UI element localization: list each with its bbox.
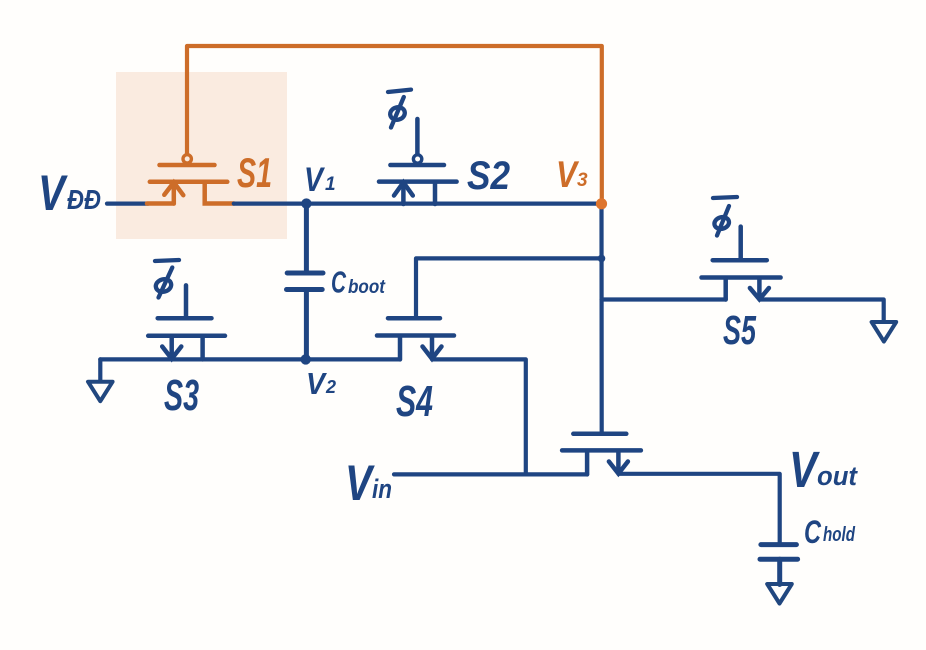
label V3 [556,154,588,195]
wire S4 drain down to Vin line [432,359,526,474]
svg-text:C: C [331,265,346,300]
wire S2 to V3 [403,202,601,206]
wire V1 row: S1 to S2 [234,202,404,206]
wire S5 drain to ground [759,300,883,322]
svg-text:S2: S2 [467,154,510,198]
node junction to S4 gate [598,255,606,263]
wire V3 down to main switch gate [599,204,603,433]
label phi-bar of S3 [154,260,179,298]
label Vout [789,441,858,498]
label V1 [304,161,336,199]
svg-text:S3: S3 [164,371,199,420]
label V2 [306,366,336,401]
svg-text:S4: S4 [396,377,433,426]
transistor S5 [702,227,781,300]
label VDD [38,165,101,221]
wire V2 row: ground to S4 [100,357,400,361]
svg-text:S5: S5 [723,307,757,353]
label phi-bar of S5 [713,197,737,236]
svg-text:V: V [306,366,327,401]
transistor S3 [148,285,225,359]
ground at S5 [872,322,897,342]
svg-text:S1: S1 [237,149,272,196]
svg-text:out: out [817,461,858,491]
transistor S4 [377,318,454,359]
svg-text:1: 1 [325,174,336,195]
svg-text:C: C [804,514,822,550]
label Vin [345,455,392,511]
label Cboot [331,265,386,300]
wire S4 gate branch [416,258,602,318]
transistor S2 [379,119,457,204]
svg-text:in: in [372,474,392,504]
capacitor Cboot [287,208,324,359]
svg-text:hold: hold [823,524,856,546]
svg-text:ĐĐ: ĐĐ [67,184,101,215]
ground at S3 [98,359,102,381]
wire orange gate loop from S1 gate to V3 [187,46,602,199]
wire S5 source to V3 rail [602,297,726,301]
transistor M main switch [562,434,641,475]
svg-text:V: V [38,165,68,221]
node V2 [301,354,311,364]
wire VDD to S1 [107,202,148,206]
svg-text:2: 2 [325,377,336,397]
svg-text:boot: boot [348,277,386,298]
node V1 [301,198,311,208]
svg-text:V: V [789,441,820,498]
svg-text:3: 3 [577,170,588,191]
svg-text:V: V [304,161,326,199]
wire Vin [394,472,587,476]
capacitor Chold [760,545,798,585]
transistor S1 [147,155,234,204]
svg-text:V: V [345,455,375,511]
ground at Chold [767,584,792,604]
label Chold [804,514,856,550]
node V3 [596,198,607,209]
highlight box around S1 [116,72,287,239]
label phi-bar of S2 [388,90,411,128]
wire main switch to Vout [618,474,779,545]
